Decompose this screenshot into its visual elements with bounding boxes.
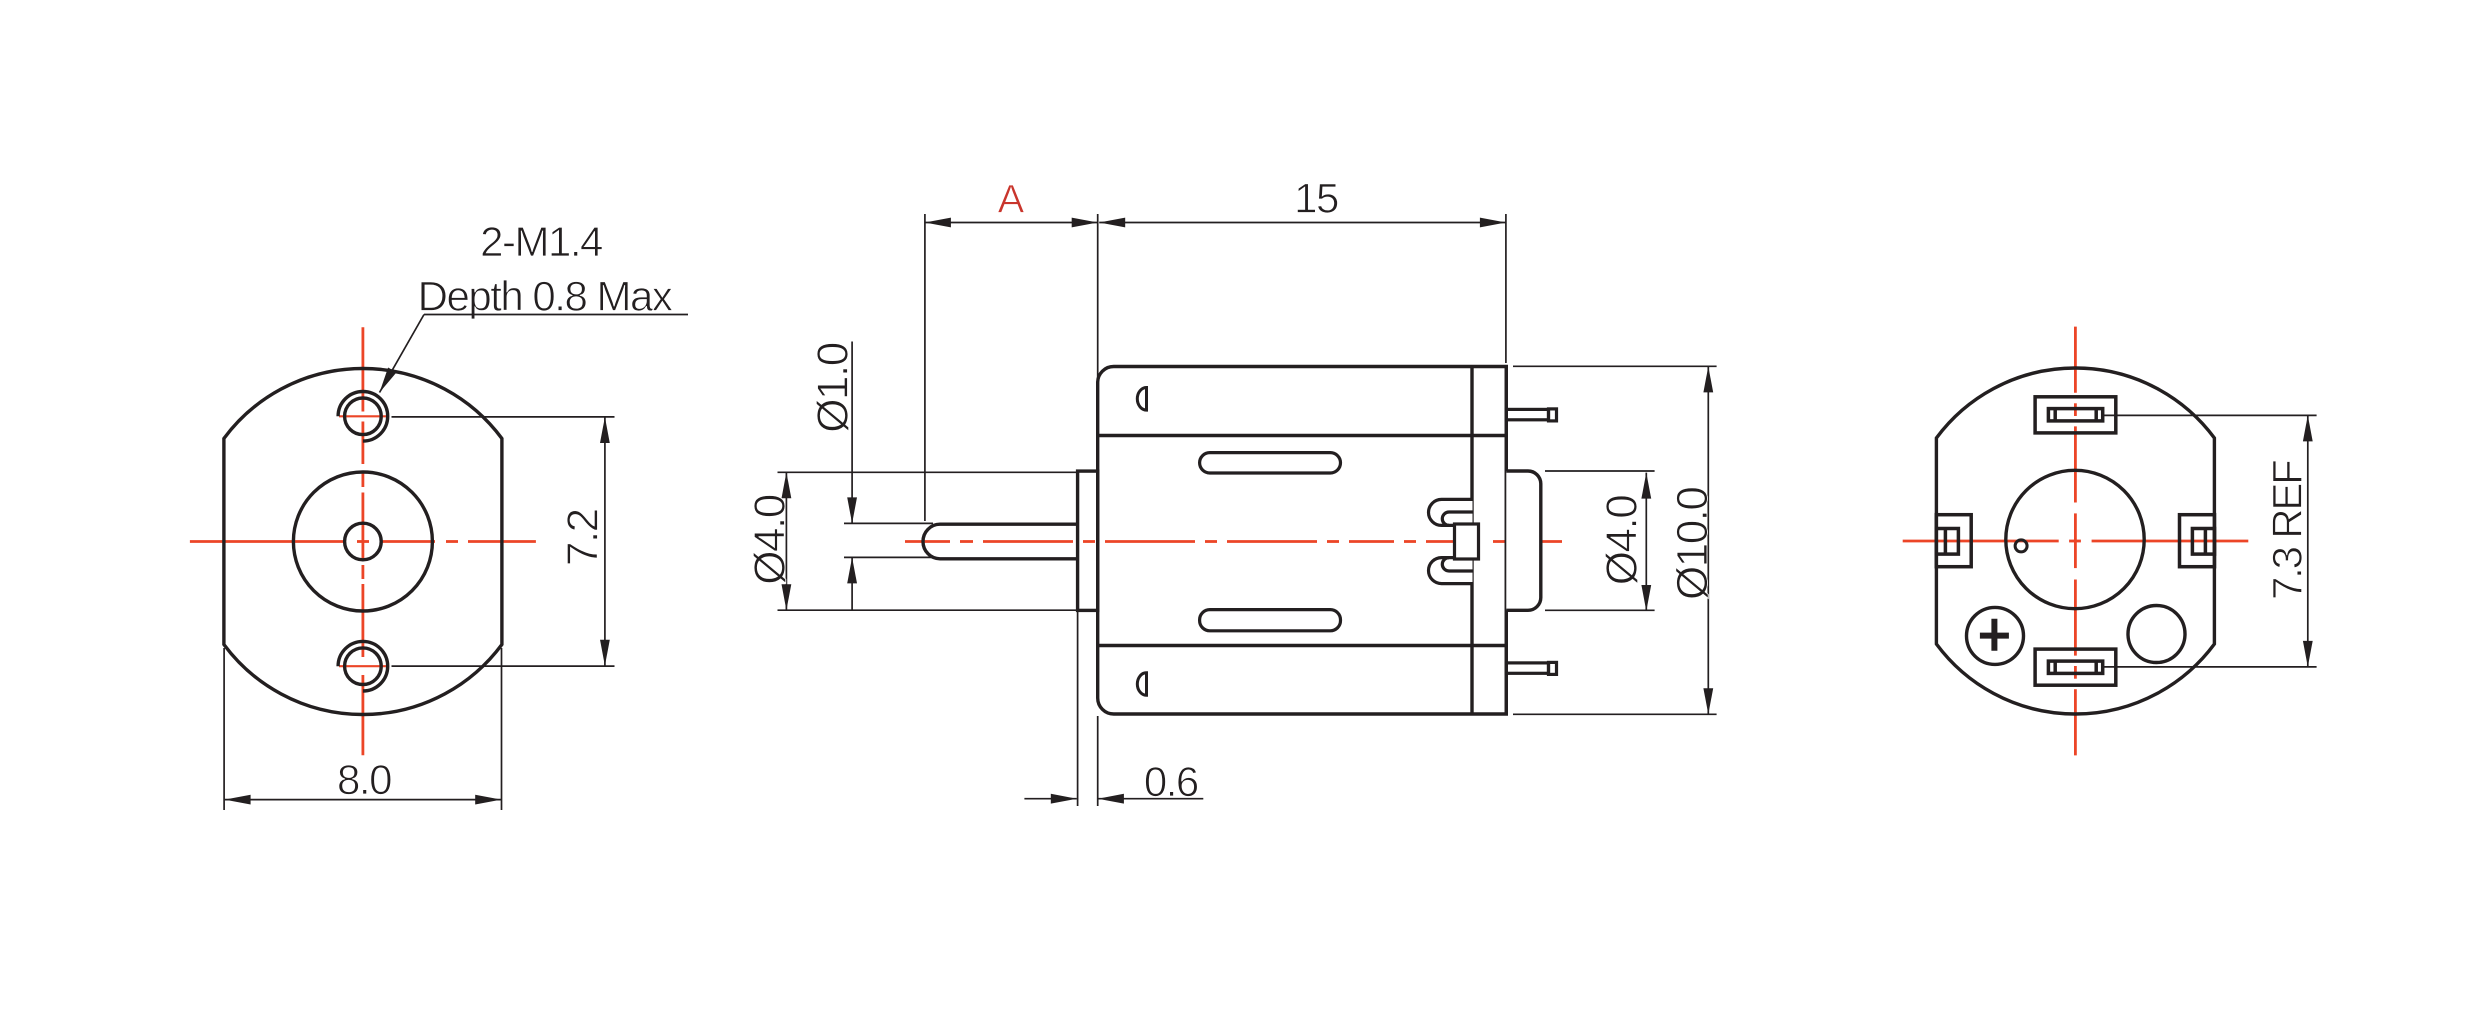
svg-text:7.3 REF: 7.3 REF — [2263, 461, 2310, 600]
svg-text:Ø4.0: Ø4.0 — [746, 495, 795, 584]
svg-text:Ø10.0: Ø10.0 — [1668, 488, 1717, 600]
svg-text:0.6: 0.6 — [1144, 758, 1198, 805]
svg-text:15: 15 — [1294, 175, 1338, 222]
svg-text:Depth 0.8 Max: Depth 0.8 Max — [418, 273, 673, 320]
svg-text:7.2: 7.2 — [558, 509, 607, 566]
svg-text:A: A — [998, 178, 1025, 222]
svg-text:Ø1.0: Ø1.0 — [808, 343, 857, 432]
svg-text:2-M1.4: 2-M1.4 — [480, 218, 603, 265]
svg-text:Ø4.0: Ø4.0 — [1598, 496, 1647, 585]
svg-text:8.0: 8.0 — [337, 756, 391, 803]
